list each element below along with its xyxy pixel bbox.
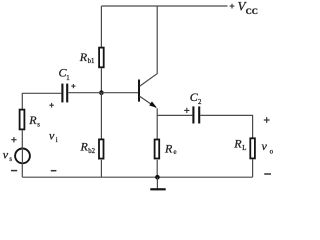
svg-text:b2: b2 [88, 148, 95, 155]
polarity + right of C1 [71, 84, 75, 88]
svg-text:e: e [174, 149, 177, 156]
polarity minus of vi [51, 170, 57, 172]
wire emitter node to C2 [157, 114, 192, 116]
svg-text:1: 1 [66, 75, 69, 82]
wire vs bottom to ground rail [21, 164, 23, 177]
transistor Q1 base bar [138, 80, 140, 102]
polarity + above vs [11, 137, 16, 142]
svg-text:R: R [164, 141, 173, 155]
polarity + of vo [264, 117, 270, 123]
polarity minus below vs [11, 170, 17, 172]
transistor Q1 emitter lead with arrow [140, 96, 157, 107]
svg-text:CC: CC [246, 6, 258, 16]
wire C1 right to base node [68, 92, 101, 94]
svg-text:o: o [270, 148, 274, 155]
label C2 [190, 90, 202, 106]
label Re [164, 141, 177, 156]
wire Rs bottom to source vs [21, 130, 23, 147]
wire left source branch top horizontal to C1 [22, 93, 61, 109]
capacitor C2 [193, 106, 199, 123]
svg-text:s: s [9, 156, 12, 163]
wire top supply rail [101, 5, 227, 7]
transistor Q1 collector lead [140, 6, 158, 86]
source vs circle [15, 148, 30, 164]
label vs [3, 148, 13, 163]
svg-text:R: R [80, 139, 89, 153]
polarity + of vi [49, 103, 54, 108]
svg-text:i: i [56, 137, 58, 144]
polarity + left of C2 [184, 108, 189, 113]
resistor Re [155, 140, 160, 159]
power +Vcc [230, 0, 258, 16]
node junction dot at base divider [99, 90, 104, 95]
resistor RL [250, 138, 255, 158]
wire C2 right to RL [200, 115, 252, 138]
svg-text:R: R [233, 136, 242, 150]
label vi [49, 129, 58, 144]
label C1 [59, 66, 70, 83]
ground symbol [150, 177, 165, 189]
resistor Rs [20, 110, 25, 130]
wire base node down to Rb2 [100, 93, 102, 140]
wire from rail down to Rb1 [100, 6, 102, 48]
wire Re bottom to rail [156, 160, 158, 177]
svg-text:s: s [37, 121, 40, 128]
node junction dot at ground rail [155, 175, 160, 180]
label Rs [28, 113, 40, 129]
svg-text:v: v [262, 139, 268, 153]
svg-text:v: v [49, 129, 55, 143]
wire Rb1 bottom to base node [100, 68, 102, 93]
resistor Rb1 [99, 48, 104, 68]
svg-text:R: R [79, 50, 88, 64]
svg-text:L: L [242, 145, 246, 152]
resistor Rb2 [99, 139, 104, 158]
svg-text:b1: b1 [88, 58, 95, 65]
wire emitter down to Re [156, 108, 158, 140]
wire RL bottom to rail [252, 159, 254, 177]
polarity minus of vo [264, 173, 271, 175]
capacitor C1 [62, 84, 67, 103]
label Rb1 [79, 50, 95, 65]
wire base node to transistor base [101, 92, 139, 94]
label vo [262, 139, 274, 155]
label RL [233, 136, 246, 152]
wire Rb2 bottom to rail [100, 160, 102, 177]
wire bottom rail [22, 176, 252, 178]
label Rb2 [80, 139, 96, 155]
svg-text:2: 2 [198, 99, 202, 106]
svg-text:v: v [3, 148, 9, 162]
svg-text:R: R [28, 113, 37, 127]
